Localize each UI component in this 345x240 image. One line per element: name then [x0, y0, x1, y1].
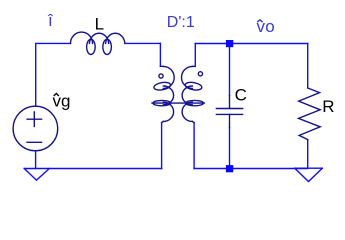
svg-text:g: g	[61, 92, 70, 111]
svg-text:C: C	[235, 86, 247, 105]
svg-text:D':1: D':1	[167, 14, 195, 31]
svg-text:o: o	[265, 17, 274, 36]
svg-text:R: R	[322, 97, 334, 116]
svg-text:L: L	[95, 14, 104, 33]
